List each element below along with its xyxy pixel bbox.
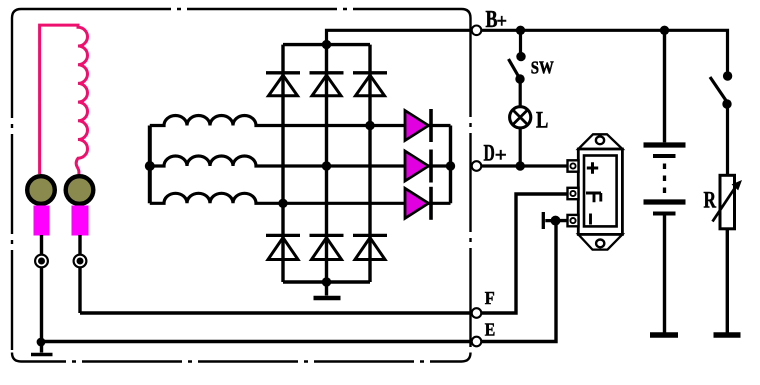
terminal F xyxy=(472,308,482,318)
slip ring left xyxy=(27,176,55,204)
diode D2 (top rail2) xyxy=(310,73,344,96)
stator star point xyxy=(148,126,152,204)
svg-text:SW: SW xyxy=(531,58,554,78)
brush right xyxy=(72,206,89,236)
battery wire top xyxy=(663,30,666,142)
ground (rectifier) xyxy=(314,282,341,298)
svg-text:E: E xyxy=(485,319,496,339)
battery cell 2 negative plate xyxy=(653,212,676,216)
regulator terminal + xyxy=(568,160,579,171)
junction dot battery branch xyxy=(660,26,669,35)
junction dot D+ bus xyxy=(446,161,455,170)
rectifier top bus xyxy=(283,43,370,46)
resistor ground bar xyxy=(714,332,741,337)
wire: F line inside housing xyxy=(80,311,472,314)
diode D1 (top rail1) xyxy=(266,73,300,96)
battery ground bar xyxy=(650,332,678,337)
battery cell 1 positive plate xyxy=(644,142,686,147)
lamp L xyxy=(510,107,531,166)
field winding (rotor coil) xyxy=(40,25,88,174)
switch at R branch xyxy=(710,71,732,175)
switch SW xyxy=(509,30,526,107)
wire: F terminal to regulator xyxy=(481,194,567,313)
svg-text:+: + xyxy=(495,145,507,167)
ground (rotor) xyxy=(31,353,53,357)
diode D6 (bottom rail3) xyxy=(353,235,387,259)
resistor wire bottom xyxy=(726,229,729,333)
junction dot bottom bus xyxy=(322,277,331,286)
junction dot phase1-rail3 xyxy=(365,121,374,130)
resistor arrow (adjustable) xyxy=(713,180,743,222)
junction dot lamp/D+ xyxy=(516,161,525,170)
diode D4 (bottom rail1) xyxy=(266,235,300,259)
stator winding phase 2 (middle) xyxy=(150,156,451,166)
terminal D+ xyxy=(472,161,482,171)
brush terminal right xyxy=(74,255,87,268)
battery cell 1 negative plate xyxy=(653,154,676,158)
terminal E xyxy=(472,337,482,347)
voltage regulator body xyxy=(578,134,622,249)
rectifier rail 2 xyxy=(325,45,328,282)
exciter diode E3 xyxy=(405,187,431,220)
wire: right brush down to F line xyxy=(78,235,81,313)
regulator plus mark xyxy=(587,162,598,173)
terminal B+ xyxy=(472,26,482,36)
regulator minus mark (rotated) xyxy=(589,214,592,225)
wire: B+ bus top xyxy=(481,30,727,71)
diode D3 (top rail3) xyxy=(353,73,387,96)
diode D5 (bottom rail2) xyxy=(310,235,344,259)
junction dot star point xyxy=(145,161,155,171)
junction dot top bus xyxy=(322,40,331,49)
regulator terminal F xyxy=(568,188,579,199)
svg-text:L: L xyxy=(536,107,548,133)
svg-text:D: D xyxy=(484,140,495,166)
rectifier rail 1 xyxy=(281,45,284,282)
slip ring right xyxy=(66,176,94,204)
chassis tap at regulator minus xyxy=(543,212,555,229)
exciter diode bus xyxy=(449,126,452,204)
stator winding phase 1 (top) xyxy=(150,116,451,126)
rectifier rail 3 xyxy=(368,45,371,282)
stator winding phase 3 (bottom) xyxy=(150,193,451,203)
brush terminal left xyxy=(35,255,48,268)
junction dot B+/lamp branch xyxy=(516,26,525,35)
wire: E terminal to regulator minus xyxy=(481,221,567,342)
rectifier bottom bus xyxy=(283,280,370,283)
junction dot phase2-rail2 xyxy=(322,161,331,170)
regulator F mark (rotated) xyxy=(586,193,601,202)
junction dot regulator minus xyxy=(551,216,561,226)
svg-text:R: R xyxy=(704,187,717,213)
battery cell 2 positive plate xyxy=(644,199,686,204)
junction dot at E line xyxy=(37,338,46,347)
battery wire bottom xyxy=(663,216,666,333)
junction dot phase3-rail1 xyxy=(278,199,287,208)
resistor R xyxy=(720,175,735,229)
wire: D+ to regulator xyxy=(481,164,567,167)
exciter diode E1 xyxy=(405,109,431,142)
wire: E line inside housing xyxy=(41,340,472,343)
wire: riser to B+ xyxy=(327,30,473,44)
brush left xyxy=(34,206,50,236)
alternator housing outline (dash-dot frame) xyxy=(12,9,471,362)
wire: left brush down to ground xyxy=(40,235,43,353)
battery dotted middle xyxy=(663,164,666,197)
svg-text:F: F xyxy=(485,288,495,308)
exciter diode E2 xyxy=(405,150,431,183)
regulator terminal - xyxy=(568,215,579,226)
